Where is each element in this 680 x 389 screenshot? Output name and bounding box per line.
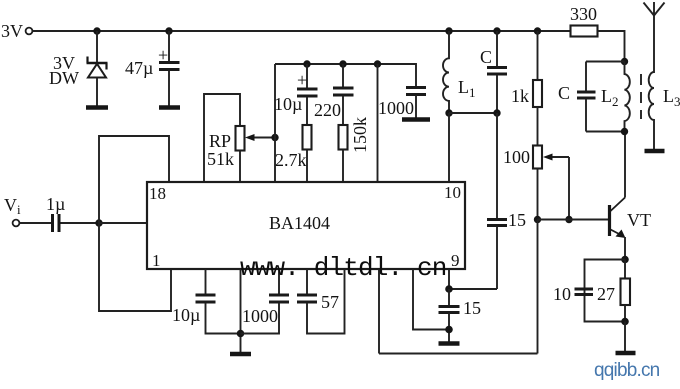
wire input junction down to pin1 — [99, 223, 171, 311]
wire input junction up to pin18 — [99, 136, 169, 223]
capacitor 10u top — [297, 64, 318, 125]
capacitor 47u — [158, 31, 180, 106]
capacitor C top — [487, 31, 507, 113]
svg-text:51k: 51k — [207, 149, 234, 169]
wiper arrow RP — [245, 134, 275, 141]
svg-text:BA1404: BA1404 — [269, 213, 330, 233]
node emitter bottom junction — [621, 318, 629, 326]
svg-text:15: 15 — [463, 298, 481, 318]
op-amp U1 BA1404 — [147, 182, 465, 269]
svg-text:220: 220 — [314, 100, 341, 120]
wire bus to IC pin — [377, 64, 379, 182]
wire zener branch — [96, 31, 98, 63]
capacitor C tank — [577, 62, 596, 132]
svg-text:9: 9 — [451, 251, 460, 270]
ground below 1000 top — [402, 117, 430, 121]
node bus-220 junction — [339, 60, 346, 67]
node bottom ground junction — [237, 330, 245, 338]
potentiometer 100 — [533, 146, 542, 169]
wire emitter loop left — [585, 260, 626, 322]
node bus-pin junction — [374, 60, 381, 67]
wire 1k to 100 — [537, 107, 539, 146]
resistor 27 — [621, 260, 631, 322]
svg-text:L3: L3 — [663, 86, 680, 109]
svg-text:+: + — [297, 70, 307, 90]
svg-text:L1: L1 — [458, 77, 476, 100]
inductor L2 — [625, 62, 630, 132]
svg-text:RP: RP — [209, 131, 231, 151]
node emitter junction — [621, 256, 629, 264]
svg-text:100: 100 — [503, 147, 530, 167]
capacitor 15 upper — [487, 113, 507, 289]
ground below 47u — [159, 105, 180, 109]
wire pin9 down — [448, 269, 450, 289]
svg-text:15: 15 — [508, 210, 526, 230]
inductor L3 — [649, 16, 654, 150]
wire pin to 15 lower ground side — [413, 269, 449, 330]
node rail-C junction — [493, 27, 500, 34]
transistor VT — [610, 132, 626, 260]
node 15 lower bottom junction — [445, 326, 453, 334]
capacitor 10u bottom — [196, 269, 241, 334]
svg-text:DW: DW — [49, 68, 79, 88]
transformer core dashes — [640, 74, 642, 119]
wire rail to 1k — [537, 31, 539, 80]
node L1 bottom — [445, 109, 452, 116]
svg-text:330: 330 — [570, 4, 597, 24]
wire base line — [538, 219, 609, 221]
wire tank top — [586, 61, 625, 63]
potentiometer RP 51k — [236, 126, 245, 151]
wire 330 to L2 top — [598, 31, 625, 62]
svg-text:57: 57 — [321, 292, 339, 312]
node rail-L1 junction — [445, 27, 452, 34]
resistor 1k — [533, 80, 542, 107]
ground below L3 — [645, 149, 665, 153]
wire to emitter ground — [624, 322, 626, 352]
svg-text:VT: VT — [627, 210, 651, 230]
node L2 bottom — [621, 128, 628, 135]
svg-text:1µ: 1µ — [46, 194, 65, 214]
svg-text:47µ: 47µ — [125, 58, 153, 78]
node pin9 junction — [445, 285, 453, 293]
ground below emitter — [616, 351, 636, 355]
wire L1 to C bottom — [449, 112, 497, 114]
node base-net junction1 — [534, 216, 541, 223]
wire bus riser to IC — [274, 64, 276, 182]
svg-text:10µ: 10µ — [172, 305, 200, 325]
wire input junction to IC left — [99, 222, 147, 224]
node L2 top — [621, 58, 628, 65]
svg-text:L2: L2 — [601, 86, 619, 109]
wire L1 bottom to pin10 — [448, 113, 450, 182]
node base-net junction2 — [565, 216, 572, 223]
wire RP top loop — [204, 94, 240, 182]
node bus-10u junction — [303, 60, 310, 67]
wire pin to bottom bus — [378, 269, 380, 354]
svg-text:10: 10 — [444, 183, 461, 202]
wire Vi to C1 — [20, 222, 52, 224]
svg-text:+: + — [158, 45, 168, 65]
capacitor 220 — [333, 64, 354, 125]
zener diode VD 3V DW — [87, 57, 108, 107]
node wiper junction — [271, 134, 278, 141]
wiper arrow 100 — [543, 154, 569, 220]
svg-text:1000: 1000 — [242, 306, 278, 326]
inductor L1 — [443, 31, 449, 113]
ground below zener — [86, 105, 108, 109]
capacitor 15 lower — [439, 289, 460, 342]
svg-text:1000: 1000 — [378, 98, 414, 118]
svg-text:10µ: 10µ — [274, 94, 302, 114]
svg-text:1: 1 — [152, 251, 161, 270]
terminal Vi input — [13, 220, 20, 227]
svg-text:150k: 150k — [350, 117, 370, 153]
wire 150k to IC — [342, 150, 344, 183]
svg-text:www. dltdl. cn: www. dltdl. cn — [240, 253, 447, 283]
terminal 3V input — [26, 28, 33, 35]
wire bottom bus — [379, 353, 538, 355]
svg-text:2.7k: 2.7k — [275, 150, 307, 170]
node rail-47u junction — [165, 27, 172, 34]
svg-text:27: 27 — [597, 284, 615, 304]
wire 2.7k to IC — [306, 150, 308, 183]
wire base column to bottom bus — [537, 220, 539, 354]
wire top supply rail — [33, 30, 571, 32]
svg-text:1k: 1k — [511, 86, 529, 106]
wire 100 to base node — [537, 169, 539, 220]
node rail-zener junction — [93, 27, 100, 34]
capacitor 1000 bottom — [241, 269, 290, 334]
capacitor 57 — [297, 269, 345, 334]
wire tank bottom — [586, 131, 625, 133]
ground below IC — [230, 352, 251, 356]
wire 15 upper to pin9 node — [449, 288, 497, 290]
capacitor 1000 top — [406, 88, 426, 119]
node rail-1k junction — [534, 27, 541, 34]
svg-text:C: C — [480, 47, 492, 67]
svg-text:Vi: Vi — [4, 195, 21, 217]
ground below 15 lower — [439, 341, 460, 345]
capacitor 10 emitter — [575, 289, 594, 295]
wire ground pin column — [240, 269, 242, 352]
resistor 2.7k — [303, 125, 312, 150]
node input junction — [95, 219, 102, 226]
wire RP bottom to IC — [239, 151, 241, 183]
node C bottom — [493, 109, 500, 116]
svg-text:3V: 3V — [1, 21, 23, 41]
resistor 150k — [339, 125, 348, 150]
capacitor C1 1u — [53, 214, 100, 232]
antenna — [644, 2, 665, 16]
svg-text:qqibb.cn: qqibb.cn — [594, 360, 660, 381]
svg-text:C: C — [558, 83, 570, 103]
wire top bus — [275, 64, 416, 87]
svg-text:18: 18 — [149, 184, 166, 203]
resistor 330 — [571, 26, 598, 37]
svg-text:10: 10 — [553, 284, 571, 304]
